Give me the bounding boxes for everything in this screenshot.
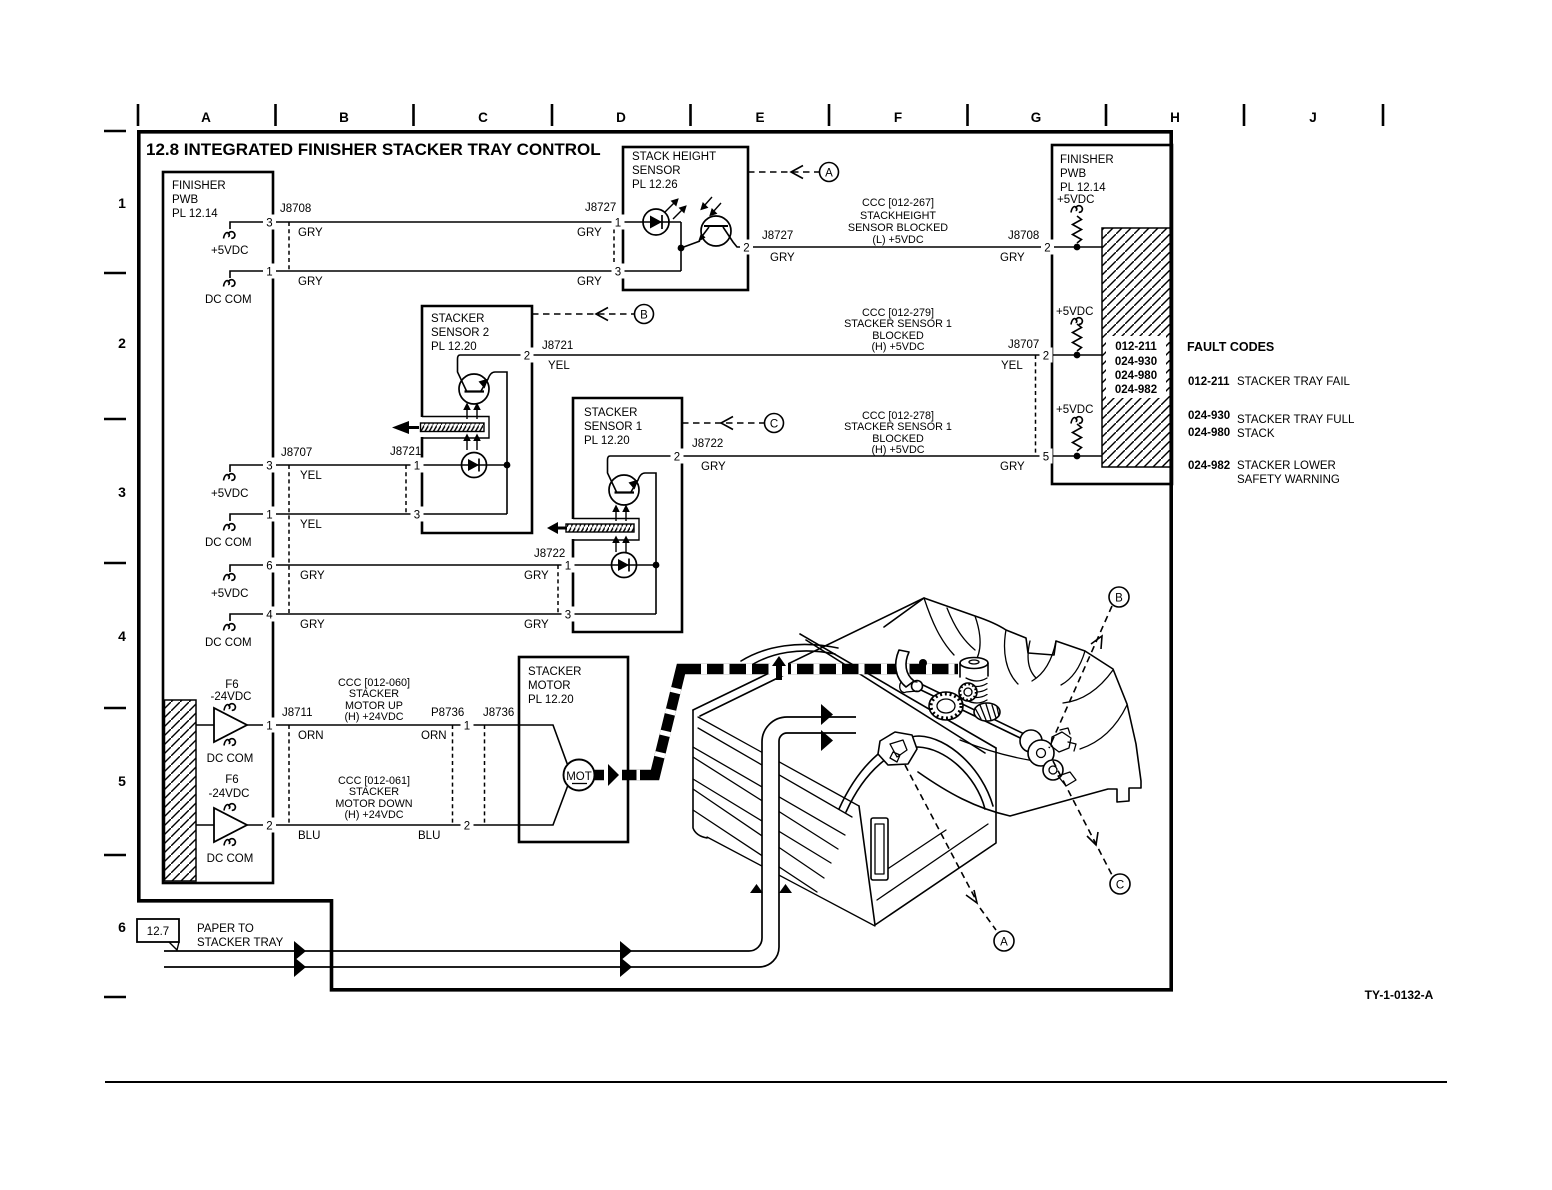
wire J8707-6 to J8722-1 GRY [273,564,573,566]
svg-text:GRY: GRY [701,461,726,473]
svg-text:1: 1 [464,721,470,733]
wire J8708-1 to J8727-3 GRY [273,270,623,272]
LED (stack height sensor) [623,221,681,223]
svg-text:STACKER: STACKER [528,666,581,678]
svg-text:STACKER TRAY: STACKER TRAY [197,937,284,949]
svg-text:ORN: ORN [298,730,324,742]
stacker cover arc [741,644,838,668]
paper into stack arrows [821,704,833,725]
svg-text:B: B [1115,593,1123,605]
note circle A [820,163,839,182]
svg-text:(H) +24VDC: (H) +24VDC [344,711,403,723]
leader to note C [682,422,764,424]
svg-text:DC COM: DC COM [207,753,254,765]
svg-text:J8707: J8707 [281,447,312,459]
svg-text:PL 12.20: PL 12.20 [584,435,630,447]
svg-text:SENSOR 2: SENSOR 2 [431,327,489,339]
paper transport ribbon [594,669,958,775]
svg-text:DC COM: DC COM [207,853,254,865]
wire J8711-2 to J8736-2 BLU [247,824,519,826]
svg-text:1: 1 [565,561,571,573]
svg-text:A: A [201,110,211,125]
pin J8707-2 [1040,348,1053,363]
phototransistor light arrows (incoming) [704,197,712,206]
spur gear small [959,683,977,701]
pull-up resistor R1 [1071,206,1082,213]
svg-text:GRY: GRY [770,252,795,264]
drive shaft [921,685,1045,749]
svg-text:012-211: 012-211 [1115,341,1157,353]
pin 8736-1 [461,718,474,733]
svg-text:STACKER: STACKER [584,407,637,419]
light arrows above flag (sensor 2) [466,410,468,419]
svg-text:GRY: GRY [300,570,325,582]
svg-text:PL 12.20: PL 12.20 [528,694,574,706]
tray handle slot [871,818,888,880]
+5VDC stub pin 3 J8707 [230,465,273,472]
svg-text:3: 3 [266,461,272,473]
phototransistor (sensor 2) [458,355,533,391]
svg-text:PL 12.14: PL 12.14 [172,208,218,220]
svg-text:STACKER TRAY FULL: STACKER TRAY FULL [1237,414,1355,426]
stacker sensor 1 box with actuator slot [573,398,682,632]
svg-text:ORN: ORN [421,730,447,742]
driver triangle 2 (motor down) [214,808,247,842]
svg-text:STACKER SENSOR 1: STACKER SENSOR 1 [844,318,952,330]
pin J8722-2 [671,449,684,464]
wire J8707-1 to J8721-3 YEL [273,513,422,515]
svg-text:SENSOR: SENSOR [632,165,681,177]
CCC stacker motor down signal text [335,775,412,821]
svg-text:DC COM: DC COM [205,294,252,306]
LED (sensor 1) [573,564,656,566]
svg-text:1: 1 [414,461,420,473]
wire J8711-1 to J8736-1 ORN [247,724,519,726]
gear bracket arm over ribbon [896,650,914,687]
svg-text:+5VDC: +5VDC [1056,306,1093,318]
svg-text:SENSOR 1: SENSOR 1 [584,421,642,433]
svg-text:J8722: J8722 [692,438,723,450]
bevel gear [974,703,1000,721]
svg-text:PWB: PWB [1060,168,1087,180]
DC COM stub pin 1 J8708 [230,271,273,278]
actuator flag (sensor 1) [566,524,634,532]
svg-text:C: C [1116,880,1124,892]
svg-text:BLU: BLU [418,830,440,842]
finisher housing outline [884,598,1141,816]
worm screw [966,678,987,703]
shaft left hub [912,681,923,692]
svg-text:GRY: GRY [577,276,602,288]
svg-text:YEL: YEL [300,470,322,482]
svg-text:1: 1 [266,510,272,522]
svg-text:J: J [1309,110,1317,125]
svg-text:C: C [770,419,778,431]
svg-text:STACKER: STACKER [349,786,399,798]
note circle C (illustration) [1110,874,1130,894]
sensor2 pin3 internal wire [422,513,507,515]
finisher PWB (right) box [1052,145,1172,484]
svg-text:TY-1-0132-A: TY-1-0132-A [1365,988,1434,1002]
svg-text:STACKER TRAY FAIL: STACKER TRAY FAIL [1237,376,1351,388]
svg-text:024-982: 024-982 [1115,384,1157,396]
svg-text:024-980: 024-980 [1188,427,1230,439]
svg-text:GRY: GRY [524,619,549,631]
row ticks left [104,131,126,997]
svg-text:(H) +24VDC: (H) +24VDC [344,809,403,821]
CCC stackheight signal text [848,197,948,246]
svg-text:1: 1 [615,218,621,230]
CCC stacker sensor 1 signal text [844,410,952,456]
ribbon junction dot [919,659,927,667]
svg-text:E: E [755,110,764,125]
svg-text:024-980: 024-980 [1115,370,1157,382]
svg-text:J8707: J8707 [1008,339,1039,351]
svg-text:+5VDC: +5VDC [211,588,248,600]
svg-text:C: C [478,110,488,125]
stacker motor box [519,657,628,842]
note circle C [765,414,784,433]
svg-text:+5VDC: +5VDC [1057,194,1094,206]
svg-text:J8721: J8721 [542,340,573,352]
LED (sensor 2) [422,464,507,466]
tray front slats [693,717,875,926]
svg-text:DC COM: DC COM [205,637,252,649]
pin J8711-2 [263,818,276,833]
leader to note B [532,313,634,315]
pin J8708-1 [263,264,276,279]
svg-text:+5VDC: +5VDC [1056,404,1093,416]
svg-text:J8727: J8727 [585,202,616,214]
connector J8707 dashed (left) [288,465,290,614]
svg-text:MOT: MOT [566,771,592,783]
svg-text:(H) +5VDC: (H) +5VDC [871,341,924,353]
svg-text:6: 6 [266,561,272,573]
svg-text:3: 3 [266,218,272,230]
svg-text:DC COM: DC COM [205,537,252,549]
svg-text:YEL: YEL [300,519,322,531]
pin J8722-1 [562,558,575,573]
svg-text:CCC [012-267]: CCC [012-267] [862,197,934,209]
pin J8727-2 [740,240,753,255]
pin 8736-2 [461,818,474,833]
svg-text:-24VDC: -24VDC [211,691,252,703]
paper path upper line [164,717,856,951]
svg-text:2: 2 [1044,243,1050,255]
svg-text:FINISHER: FINISHER [1060,154,1114,166]
svg-text:YEL: YEL [1001,360,1023,372]
svg-text:PL 12.26: PL 12.26 [632,179,678,191]
svg-text:2: 2 [266,821,272,833]
fault code list on board [1106,336,1166,398]
12.7 flow reference box [137,919,179,942]
svg-text:J8708: J8708 [280,203,311,215]
svg-text:2: 2 [674,452,680,464]
svg-text:STACKER: STACKER [349,688,399,700]
svg-text:+5VDC: +5VDC [211,245,248,257]
pipe into stack (white fill) [740,717,856,967]
wire J8708-3 to J8727-1 GRY [273,221,623,223]
wire J8722-2 to J8707-5 GRY [682,455,1052,457]
svg-text:2: 2 [118,335,126,351]
svg-text:FAULT CODES: FAULT CODES [1187,340,1274,354]
svg-text:J8711: J8711 [282,707,312,719]
pin J8727-1 [612,215,625,230]
tray front right edge and bottom [859,748,996,925]
paper path lower line [164,733,856,967]
svg-text:A: A [825,168,833,180]
svg-text:1: 1 [118,195,126,211]
svg-text:GRY: GRY [524,570,549,582]
svg-text:PAPER TO: PAPER TO [197,923,254,935]
DC COM stub pin 4 J8707 [230,614,273,621]
worm motor cylinder [960,658,988,669]
svg-text:6: 6 [118,919,126,935]
svg-text:012-211: 012-211 [1188,376,1230,388]
connector P8736 dashed [452,725,454,825]
+5VDC stub pin 6 J8707 [230,565,273,572]
note circle A (illustration) [994,931,1014,951]
svg-text:H: H [1170,110,1180,125]
svg-text:024-930: 024-930 [1188,410,1230,422]
wire J8707-4 to J8722-3 GRY [273,613,573,615]
pin J8708-3 [263,215,276,230]
svg-text:STACK HEIGHT: STACK HEIGHT [632,151,716,163]
svg-text:2: 2 [743,243,749,255]
svg-text:STACKHEIGHT: STACKHEIGHT [860,210,936,222]
pin number labels with white backing [263,215,1054,833]
DC COM stub pin 1 J8707 [230,514,273,521]
svg-text:2: 2 [1043,351,1049,363]
svg-text:J8722: J8722 [534,548,565,560]
svg-text:J8727: J8727 [762,230,793,242]
phototransistor (sensor 1) [608,456,683,492]
svg-text:F6: F6 [225,774,238,786]
+5VDC stub pin 3 J8708 [230,222,273,229]
svg-text:024-982: 024-982 [1188,460,1230,472]
actuator flag (sensor 2) [421,423,485,432]
pin J8722-3 [562,607,575,622]
pin J8707-1 [263,507,276,522]
motor MOT symbol [519,725,568,766]
finisher PWB (left) box [163,172,273,883]
connector J8722 dashed [557,565,559,614]
pin J8707-3 [263,458,276,473]
leader to note B (illustration) [1049,606,1112,748]
tray front arch [839,736,993,812]
svg-text:1: 1 [266,721,272,733]
svg-text:STACK: STACK [1237,428,1275,440]
svg-text:+5VDC: +5VDC [211,488,248,500]
pin J8711-1 [263,718,276,733]
svg-text:12.7: 12.7 [147,926,169,938]
node: LED to emitter junction [680,222,682,271]
footer rule [105,1081,1447,1083]
svg-text:GRY: GRY [300,619,325,631]
light arrows below flag (sensor 1) [615,543,617,552]
svg-text:P8736: P8736 [431,707,464,719]
connector J8736 dashed [484,725,486,825]
light arrows above flag (sensor 1) [615,512,617,521]
pin J8707-6 [263,558,276,573]
column letters [201,110,1317,125]
svg-text:J8721: J8721 [390,446,421,458]
svg-text:GRY: GRY [298,227,323,239]
svg-text:STACKER SENSOR 1: STACKER SENSOR 1 [844,421,952,433]
connector J8721 dashed [405,465,407,514]
column ticks top [138,104,1383,126]
svg-text:STACKER: STACKER [431,313,484,325]
leader to note A [748,171,819,173]
hatched board area (right PWB) [1102,228,1171,467]
svg-text:1: 1 [266,267,272,279]
svg-text:(L) +5VDC: (L) +5VDC [872,234,924,246]
spur gear large [929,692,963,720]
pin J8721-2 [521,348,534,363]
svg-text:BLU: BLU [298,830,320,842]
main border [139,132,1171,990]
svg-text:PL 12.14: PL 12.14 [1060,182,1106,194]
svg-text:PWB: PWB [172,194,199,206]
CCC stacker motor up signal text [338,677,410,723]
pin J8707-4 [263,607,276,622]
driver triangle 1 (motor up) [214,708,247,742]
svg-text:5: 5 [118,773,126,789]
svg-text:2: 2 [524,351,530,363]
svg-text:B: B [339,110,349,125]
svg-text:3: 3 [414,510,420,522]
paper up arrows at bend [750,884,763,893]
svg-text:2: 2 [464,821,470,833]
svg-text:D: D [616,110,626,125]
tray left edge [693,710,707,838]
svg-text:12.8 INTEGRATED FINISHER STACK: 12.8 INTEGRATED FINISHER STACKER TRAY CO… [146,140,601,159]
tray top right edge [800,634,996,753]
svg-text:SAFETY WARNING: SAFETY WARNING [1237,474,1340,486]
roller pulley pair [1020,730,1042,752]
tray back rail edge [693,598,924,716]
light arrows below flag (sensor 2) [466,441,468,450]
hatched board area (left PWB) [165,700,197,881]
svg-text:3: 3 [615,267,621,279]
wire J8727-2 to J8708-2 GRY [748,246,1052,248]
LED light arrows [665,203,674,212]
tray front face lines [874,824,988,900]
svg-text:4: 4 [266,610,273,622]
svg-text:PL 12.20: PL 12.20 [431,341,477,353]
connector J8707 dashed (right, pins 2-5) [1035,355,1037,456]
lower roller gear [1043,760,1063,780]
note circle B (illustration) [1109,587,1129,607]
svg-text:5: 5 [1043,452,1049,464]
svg-text:4: 4 [118,628,126,644]
sensor actuator flag part [878,732,917,765]
pin J8708-2 [1041,240,1054,255]
svg-text:GRY: GRY [577,227,602,239]
svg-text:3: 3 [118,484,126,500]
svg-text:GRY: GRY [1000,461,1025,473]
svg-text:-24VDC: -24VDC [209,788,250,800]
svg-text:J8736: J8736 [483,707,514,719]
leader to note C (illustration) [1053,761,1112,875]
svg-text:SENSOR BLOCKED: SENSOR BLOCKED [848,222,948,234]
note circle B [635,305,654,324]
svg-text:YEL: YEL [548,360,570,372]
connector J8711 dashed [288,725,290,825]
svg-text:3: 3 [565,610,571,622]
svg-text:FINISHER: FINISHER [172,180,226,192]
pin J8707-5 [1040,449,1053,464]
CCC stacker sensor 2 signal text [844,307,952,353]
svg-text:MOTOR: MOTOR [528,680,571,692]
svg-text:G: G [1031,110,1042,125]
paper direction arrows [294,941,306,961]
svg-text:GRY: GRY [1000,252,1025,264]
leader to note A (illustration) [905,765,975,898]
pin J8721-3 [411,507,424,522]
svg-text:STACKER LOWER: STACKER LOWER [1237,460,1336,472]
svg-text:GRY: GRY [298,276,323,288]
phototransistor (stack height sensor) [701,216,731,246]
row numbers [118,195,126,935]
svg-text:B: B [640,310,648,322]
ribbon arrow up [770,663,788,676]
pin J8721-1 [411,458,424,473]
stacker sensor 2 box with actuator slot [422,306,532,533]
housing inner folds [924,598,1127,763]
svg-text:024-930: 024-930 [1115,356,1157,368]
shaft end bracket [1051,728,1076,752]
wire J8707-3 to J8721-1 YEL [273,464,422,466]
svg-text:J8708: J8708 [1008,230,1039,242]
svg-text:(H) +5VDC: (H) +5VDC [871,444,924,456]
stack height sensor box [623,147,748,290]
sensor1 pin3 internal wire [573,613,656,615]
svg-text:A: A [1000,937,1008,949]
pin J8727-3 [612,264,625,279]
svg-text:F6: F6 [225,679,238,691]
ribbon arrow right (at motor) [604,768,622,782]
wire J8721-2 to J8707-2 YEL [532,354,1052,356]
connector J8708 dashed [288,222,290,271]
svg-text:F: F [894,110,902,125]
connector J8727 dashed [613,222,615,271]
